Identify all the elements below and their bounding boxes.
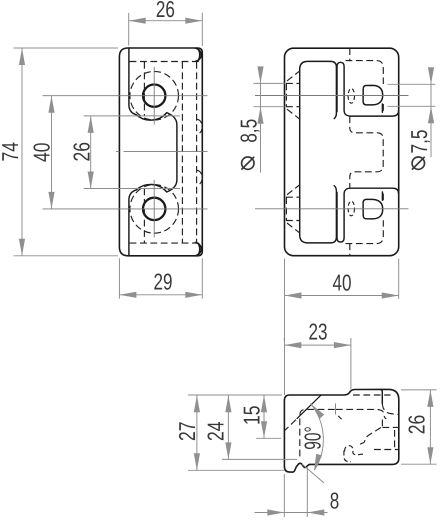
hidden diagonal wiggle (357, 428, 381, 447)
svg-text:26: 26 (69, 142, 95, 162)
centerline hole bottom horizontal (43, 208, 208, 210)
svg-text:29: 29 (154, 268, 173, 294)
hidden pocket left (300, 409, 335, 459)
centerline slot cross (335, 404, 337, 415)
hidden face bottom edge top (130, 61, 202, 63)
front face bottom cap inner arc (197, 243, 200, 255)
centerline vertical top hole (153, 67, 155, 125)
dimension 40 left (51, 96, 53, 209)
dimension 29 bottom (119, 258, 202, 299)
90 deg leader diagonal (302, 464, 324, 483)
hidden horizontal bottom right (374, 449, 399, 451)
dimension 26 right of bottom view (401, 390, 437, 464)
face/lobe left edge + top lobe arc + notch + bottom lobe arc (129, 48, 177, 256)
front face top cap inner arc (197, 49, 200, 61)
svg-text:27: 27 (174, 422, 200, 442)
dimension 90 degrees arc (311, 404, 324, 471)
svg-text:74: 74 (0, 142, 23, 162)
dimension 26 vertical (84, 116, 180, 189)
phi symbol 8,5 (241, 157, 254, 170)
svg-text:40: 40 (28, 142, 54, 162)
centerline hole top horizontal (also ext line of 40) (43, 95, 208, 97)
svg-text:26: 26 (404, 415, 430, 435)
svg-text:7,5: 7,5 (406, 130, 432, 154)
dimension phi 8,5 (254, 69, 285, 173)
phi symbol 7,5 (412, 157, 425, 170)
centerline mid horizontal (116, 151, 208, 153)
svg-text:8,5: 8,5 (235, 119, 261, 143)
dimension 26 top (129, 13, 203, 47)
dimension 40 bottom side view (285, 259, 399, 396)
chamfer diagonal solid (297, 395, 321, 419)
dimension 15 (256, 395, 281, 438)
svg-text:40: 40 (333, 269, 352, 295)
dimension phi 7,5 (388, 70, 436, 158)
dimension 24 (222, 395, 297, 459)
boss wall step bottom (381, 192, 383, 200)
hidden short vertical right (394, 430, 396, 448)
hidden clip corner (344, 451, 351, 462)
hidden countersink bottom hole: bore lines (286, 197, 300, 220)
hidden countersink top hole: cone (287, 71, 299, 119)
hidden pocket bottom (346, 220, 384, 243)
hidden center slot line vertical (349, 48, 351, 61)
svg-text:26: 26 (156, 0, 175, 22)
svg-text:8: 8 (330, 488, 340, 514)
hidden countersink top hole: bore lines (286, 83, 300, 106)
svg-text:15: 15 (238, 406, 264, 426)
centerline vertical bottom hole (153, 180, 155, 238)
front face bottom cap right arc (195, 242, 201, 255)
svg-text:90°: 90° (299, 426, 325, 450)
hidden circle top (130, 71, 179, 120)
slot finger bottom (337, 188, 399, 242)
hidden face top edge bottom (130, 242, 202, 244)
ear hidden bottom arc (382, 404, 399, 415)
hidden edge vertical x196 (196, 62, 198, 243)
hidden clip squiggle (345, 446, 364, 455)
hidden pocket right with hook (336, 409, 386, 419)
hidden slot oval top (348, 89, 354, 104)
hidden slot oval bottom (348, 201, 354, 216)
front face top cap right arc (195, 48, 201, 61)
hidden bulge right wall upper (197, 119, 203, 134)
hidden middle bracket (350, 116, 383, 188)
outline bottom view with step and notch (284, 389, 398, 472)
dimension 23 (284, 338, 351, 390)
hidden countersink bottom hole: cone (287, 185, 299, 233)
hidden top edge right of step (353, 394, 391, 396)
centerline bottom hole side view (255, 208, 409, 210)
hidden edge vertical x182 (181, 62, 183, 243)
boss wall step top (381, 104, 383, 112)
hidden small diagonal tick (338, 416, 341, 419)
hidden horizontal mid right (382, 426, 398, 428)
boss bulge bottom (363, 199, 383, 219)
outer outline front view (119, 48, 202, 256)
dimension 74 left (14, 48, 119, 256)
hidden short vertical (381, 420, 383, 428)
chamfer diagonal hidden (285, 420, 296, 431)
hidden bulge right wall lower (197, 170, 203, 185)
dimension 27 (188, 395, 285, 470)
hole top (solid circle) (143, 85, 165, 107)
centerline top hole side view (255, 95, 409, 97)
outer outline side view (285, 48, 399, 256)
hole bottom (solid circle) (143, 198, 165, 220)
hidden circle bottom (130, 185, 179, 234)
hidden pocket top (346, 61, 384, 84)
boss bulge top (363, 85, 383, 105)
svg-text:24: 24 (203, 421, 229, 441)
dimension 8 (255, 467, 328, 518)
svg-text:23: 23 (309, 319, 328, 345)
ear left edge (381, 390, 383, 404)
inner profile C shape (300, 61, 337, 243)
slot finger top (337, 62, 399, 116)
hidden edge vertical x144 bottom lobe (143, 189, 145, 243)
hidden edge vertical x144 top lobe (143, 62, 145, 116)
